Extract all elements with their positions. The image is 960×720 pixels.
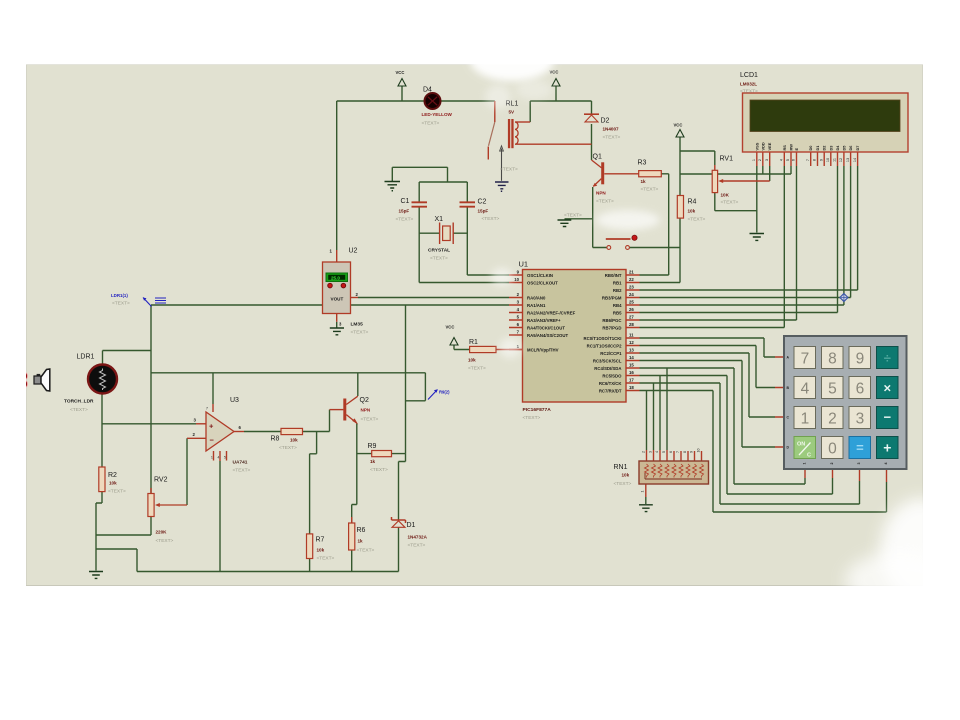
svg-text:1: 1 [211,456,213,460]
white smudge PIC left pins [491,268,513,286]
svg-text:28: 28 [629,322,634,327]
wire switch bottom stub [487,147,489,160]
svg-text:R4: R4 [688,199,697,206]
svg-text:RB3/PGM: RB3/PGM [602,296,622,301]
diode D2 [584,114,621,140]
svg-text:<TEXT>: <TEXT> [233,468,251,474]
svg-text:=: = [856,440,864,455]
white smudge bottom right corner [845,498,960,608]
wire LCD VSS to ground [756,166,758,233]
wire RN1 pin4 to row16 [659,376,661,451]
power symbol VCC2 [550,70,561,87]
wire U3 bottom stubs [214,451,227,461]
wire RV2 bottom [96,517,151,536]
svg-text:<TEXT>: <TEXT> [156,538,174,544]
wire R2 bottom to ground [96,492,102,571]
svg-text:5: 5 [786,159,790,161]
resistor R2 [99,467,126,495]
svg-text:C: C [807,453,811,459]
svg-text:MCLR/Vpp/THV: MCLR/Vpp/THV [527,348,559,353]
svg-text:10k: 10k [109,481,117,486]
wire LDR bottom to R2 and U3 pin3 [102,394,196,467]
svg-text:5: 5 [224,456,226,460]
wire RV1 top red stub [714,165,716,170]
svg-text:RC2/CCP1: RC2/CCP1 [600,351,622,356]
capacitor C2 [460,199,500,223]
wire U3 pin7 red stub [212,404,214,412]
svg-text:8: 8 [683,451,687,453]
svg-text:RC1/T1OSI/CCP2: RC1/T1OSI/CCP2 [587,344,622,349]
wire LDR top to RV2 top [103,305,152,494]
wire RN1 pin5 to row15 [666,368,668,450]
wire keypad col stubs red [805,468,887,482]
resistor R9 [368,443,392,473]
node diamond junction D5 [840,294,848,302]
wire VCC4 to R1 [454,345,470,350]
wire RV2 wiper to U3 pin2 [186,438,188,505]
sensor U2 LM35 [323,248,369,336]
svg-text:24: 24 [629,292,634,297]
wire ground rail bottom [96,549,399,572]
ground RN1 [639,505,653,512]
svg-text:10k: 10k [688,209,696,214]
power symbol VCC1 [396,70,407,86]
svg-text:<TEXT>: <TEXT> [70,407,88,413]
net label R9(2) [428,390,450,400]
svg-text:<TEXT>: <TEXT> [721,200,739,206]
wire RN1 pin2 to row18 [646,391,648,451]
relay RL1 [506,101,583,219]
svg-text:<TEXT>: <TEXT> [112,301,130,307]
svg-text:R1: R1 [469,339,478,346]
svg-text:4: 4 [884,463,888,465]
ground LCD VSS [750,234,765,241]
wire U3 output to R8 [244,431,281,433]
svg-text:C1: C1 [401,198,410,205]
svg-text:RA4/T0CKI/C1OUT: RA4/T0CKI/C1OUT [527,326,565,331]
svg-text:<TEXT>: <TEXT> [688,217,706,223]
svg-text:11: 11 [629,333,634,338]
svg-text:12: 12 [839,158,843,162]
wire LCD E to PIC pin27 [640,166,797,320]
svg-text:1: 1 [752,159,756,161]
wire R9 right to V1 and D1 [392,454,406,520]
svg-text:0: 0 [828,440,837,457]
microcontroller U1 PIC16F877A [519,260,627,422]
svg-text:15pF: 15pF [478,209,489,214]
svg-text:UA741: UA741 [233,460,248,466]
wire Q1 emitter to ground and push button [565,187,593,248]
svg-text:10k: 10k [317,548,325,553]
svg-text:2: 2 [828,410,837,427]
wire relay coil bottom red [515,143,591,145]
svg-text:LED-YELLOW: LED-YELLOW [422,112,453,117]
svg-text:<TEXT>: <TEXT> [468,366,486,372]
wire RN1 pin1 to ground [645,497,647,504]
svg-text:1k: 1k [641,179,647,184]
svg-text:2: 2 [642,451,646,453]
svg-text:RA3/AN3/VREF+: RA3/AN3/VREF+ [527,318,561,323]
ground bottom left [89,572,103,579]
wire VCC2 to relay rail [530,86,591,122]
pot RV1 [712,156,738,206]
svg-text:7: 7 [806,159,810,161]
svg-text:RB2: RB2 [613,288,622,293]
wire RV2 top red stub [150,488,152,494]
resistor R7 [307,534,335,562]
wire D1 bottom to rail [398,527,400,571]
power symbol VCC4 [446,325,459,346]
svg-text:23: 23 [629,285,634,290]
svg-text:220K: 220K [156,530,168,535]
wire VCC rail to D4 and U2 pin1 [337,86,495,250]
wire PIC left pin stubs [509,275,523,350]
svg-text:RC5/SDO: RC5/SDO [602,374,622,379]
svg-text:RC7/RX/DT: RC7/RX/DT [599,389,622,394]
svg-text:D2: D2 [601,118,610,125]
svg-text:11: 11 [833,158,837,162]
svg-text:E: E [794,148,799,151]
svg-text:D7: D7 [855,146,860,151]
wire Q2 emitter to R9 and R6 [352,424,372,524]
wire RN1 pin3 to row17 [653,383,655,450]
svg-text:12: 12 [629,340,634,345]
ground RV1 bottom rail [0,0,1,1]
svg-text:LDR1: LDR1 [77,354,95,361]
LDR1 [64,354,117,414]
white smudge near Q1 [596,210,660,230]
svg-text:<TEXT>: <TEXT> [351,330,369,336]
svg-text:CRYSTAL: CRYSTAL [428,248,450,254]
svg-text:−: − [884,410,892,425]
svg-text:13: 13 [846,158,850,162]
svg-text:RB6/PGC: RB6/PGC [602,318,621,323]
svg-text:R2: R2 [108,472,117,479]
U1 right pin names [584,273,623,394]
svg-text:C2: C2 [478,199,487,206]
wire sensor horizontal H1 [151,373,425,401]
svg-text:2: 2 [758,159,762,161]
svg-text:16: 16 [629,370,634,375]
transistor Q1 [592,154,615,205]
svg-text:U2: U2 [349,248,358,255]
svg-text:VCC: VCC [674,123,683,128]
svg-text:R8: R8 [271,436,280,443]
svg-text:3: 3 [857,463,861,465]
svg-text:13: 13 [629,348,634,353]
svg-text:RV2: RV2 [154,477,168,484]
svg-text:14: 14 [853,158,857,162]
svg-text:RV1: RV1 [720,156,734,163]
svg-text:<TEXT>: <TEXT> [422,121,440,127]
svg-text:D4: D4 [423,87,432,94]
wire push button to R4 vertical [593,247,680,249]
white smudge top center [470,39,554,109]
svg-text:10: 10 [826,158,830,162]
wire LCD RS to PIC pin28 [640,166,785,328]
svg-text:VCC: VCC [446,325,455,330]
wire OSC1 to PIC pin9 [467,274,509,276]
wire U3 pin7 to H1 [212,373,214,404]
wire U3 in- red stub [187,437,206,439]
svg-text:RB7/PGD: RB7/PGD [602,326,621,331]
svg-text:+: + [883,440,891,456]
wire RN1 top pin stubs red [647,450,702,461]
svg-text:D4: D4 [835,145,840,151]
svg-text:5V: 5V [509,110,516,115]
svg-text:<TEXT>: <TEXT> [614,481,632,487]
wire LCD D6 to PIC pin24 [640,166,851,298]
svg-text:RC3/SCK/SCL: RC3/SCK/SCL [593,359,622,364]
wire R1 to PIC pin1 red [496,349,523,351]
wire R7 bottom [309,559,311,572]
wire U2 pin3 to ground [336,322,338,328]
svg-text:VOUT: VOUT [331,297,344,302]
svg-text:1N4732A: 1N4732A [408,535,428,540]
svg-text:9: 9 [690,451,694,453]
svg-text:D5: D5 [841,145,846,151]
svg-text:5: 5 [828,380,837,397]
svg-text:LCD1: LCD1 [740,72,758,79]
svg-text:25: 25 [629,300,634,305]
svg-text:17: 17 [629,378,634,383]
svg-text:TORCH_LDR: TORCH_LDR [64,399,94,405]
ground near crystal [385,182,401,192]
wire PIC pin14 to keypad row D [640,361,776,448]
svg-text:RB4: RB4 [613,303,622,308]
svg-text:1N4007: 1N4007 [603,127,620,132]
svg-text:<TEXT>: <TEXT> [357,548,375,554]
svg-text:U3: U3 [230,397,239,404]
transistor Q2 [343,396,378,423]
wire PIC pin3 sensor net V1 [151,305,509,454]
svg-text:VCC: VCC [550,70,559,75]
svg-text:×: × [884,381,892,396]
svg-text:4: 4 [218,456,220,460]
wire PIC pin15 to keypad col1 [640,368,806,484]
wire PIC right pin stubs [626,275,640,391]
svg-text:R7: R7 [316,537,325,544]
svg-text:−: − [210,436,215,445]
svg-text:VEE: VEE [767,142,772,150]
svg-text:R3: R3 [638,160,647,167]
keypad KPD [784,336,907,469]
svg-text:RA0/AN0: RA0/AN0 [527,296,546,301]
svg-text:<TEXT>: <TEXT> [317,556,335,562]
svg-text:VCC: VCC [396,70,405,75]
svg-text:NPN: NPN [361,408,371,413]
U1 left pin names [527,273,576,353]
svg-text:OSC1/CLKIN: OSC1/CLKIN [527,273,553,278]
wire relay coil top red [515,121,530,123]
svg-text:10: 10 [697,449,701,453]
svg-text:X1: X1 [435,216,444,223]
svg-text:÷: ÷ [884,351,891,366]
svg-text:PIC16F877A: PIC16F877A [523,407,552,413]
wire R6 top red stub [351,517,353,523]
svg-text:2: 2 [830,463,834,465]
wire RN1 pin1 red stub [645,484,647,497]
schematic sheet [26,65,923,586]
svg-text:7: 7 [801,350,810,367]
ground U2 [330,328,344,335]
wire RV1 wiper red [722,180,770,182]
svg-text:R6: R6 [357,527,366,534]
svg-text:<TEXT>: <TEXT> [361,417,379,423]
svg-text:<TEXT>: <TEXT> [408,543,426,549]
svg-text:9: 9 [819,159,823,161]
wire R4 bottom to PIC pin22 [640,218,681,283]
svg-text:10: 10 [514,277,519,282]
svg-text:<TEXT>: <TEXT> [396,217,414,223]
svg-text:<TEXT>: <TEXT> [523,415,541,421]
resistor R8 [271,428,303,451]
svg-text:NPN: NPN [596,191,606,196]
svg-text:1: 1 [801,410,810,427]
svg-text:+: + [209,422,214,431]
push button [606,235,637,249]
svg-text:U1: U1 [519,260,529,269]
svg-text:14: 14 [629,355,634,360]
wire RV1 bottom to VSS ground [715,193,757,211]
wire Q2 collector to H1 [357,373,359,396]
svg-text:<TEXT>: <TEXT> [482,216,500,222]
U1 right pin numbers [629,270,634,391]
wire U3 V- to ground rail [219,461,221,572]
wire U2 pin1 red stub [336,250,338,262]
wire U2 pin2 red stub [351,297,359,299]
svg-text:9: 9 [856,350,865,367]
svg-text:26: 26 [629,307,634,312]
svg-text:<TEXT>: <TEXT> [603,135,621,141]
svg-text:25.0: 25.0 [331,276,340,281]
svg-text:Q2: Q2 [360,397,369,404]
wire LCD D4 to PIC pin26 [640,166,838,313]
svg-text:22: 22 [629,277,634,282]
svg-text:RB5: RB5 [613,311,622,316]
ground Q1 emitter [558,220,572,227]
resistor R3 [638,160,662,193]
svg-text:<TEXT>: <TEXT> [596,199,614,205]
svg-text:RN1: RN1 [614,464,628,471]
net label LDR1(1) [111,293,166,307]
svg-text:6: 6 [669,451,673,453]
wire PIC pin17 to keypad col3 [640,383,860,504]
svg-text:1: 1 [803,463,807,465]
svg-text:RA2/AN2/VREF-/CVREF: RA2/AN2/VREF-/CVREF [527,311,576,316]
svg-text:8: 8 [813,159,817,161]
svg-text:ON: ON [797,442,805,448]
wire crystal C1 C2 network [392,167,467,282]
svg-text:4: 4 [780,159,784,161]
svg-text:LDR1(1): LDR1(1) [111,293,128,298]
svg-text:3: 3 [765,159,769,161]
svg-text:R9: R9 [368,443,377,450]
svg-text:VDD: VDD [760,142,765,150]
wire R3 to PIC pin21 [640,174,669,275]
resistor R6 [349,523,375,554]
wire PIC pin11 to keypad row A [640,338,776,357]
resistor R1 [468,339,496,372]
svg-text:4: 4 [655,451,659,453]
svg-text:Q1: Q1 [593,154,602,161]
svg-text:RB0/INT: RB0/INT [605,273,622,278]
svg-text:1k: 1k [370,459,376,464]
svg-text:<TEXT>: <TEXT> [564,213,582,219]
svg-text:6: 6 [792,159,796,161]
svg-text:<TEXT>: <TEXT> [641,187,659,193]
wire D2 anode to Q1 collector [591,124,593,160]
svg-text:1k: 1k [358,539,364,544]
LED D4 [422,87,453,127]
wire R6 bottom [351,550,353,572]
svg-text:27: 27 [629,315,634,320]
U1 left pin numbers [514,270,519,350]
svg-text:RC4/SDI/SDA: RC4/SDI/SDA [594,366,621,371]
svg-text:21: 21 [629,270,634,275]
svg-text:1: 1 [641,491,645,493]
svg-text:10K: 10K [721,193,730,198]
relay contact switch [489,122,519,181]
svg-text:RC6/TX/CK: RC6/TX/CK [599,381,623,386]
svg-text:RB1: RB1 [613,281,622,286]
svg-text:R9(2): R9(2) [439,390,450,395]
resistor network RN1 [614,461,709,487]
power symbol VCC3 [674,123,685,138]
wire Q2 base red [330,409,344,411]
svg-text:<TEXT>: <TEXT> [370,467,388,473]
svg-text:6: 6 [856,380,865,397]
svg-text:LM032L: LM032L [740,82,757,87]
svg-text:3: 3 [856,410,865,427]
svg-text:VSS: VSS [754,142,759,150]
svg-text:D0: D0 [808,146,813,151]
svg-text:D1: D1 [815,145,820,151]
svg-text:<TEXT>: <TEXT> [108,489,126,495]
svg-text:RA5/AN4/SS/C2OUT: RA5/AN4/SS/C2OUT [527,333,568,338]
svg-text:7: 7 [676,451,680,453]
svg-text:10k: 10k [622,473,630,478]
LCD pin numbers [752,158,857,162]
svg-text:10k: 10k [468,358,476,363]
wire PIC pin12 to keypad row B [640,346,776,388]
wire Q1 base red [604,173,638,175]
wire PIC pin13 to keypad row C [640,353,776,417]
crystal X1 [428,216,453,262]
wire LCD VDD RW to VCC vertical [680,166,791,174]
svg-text:8: 8 [828,350,837,367]
wire PIC pin18 to keypad col4 [640,391,887,513]
svg-text:LM35: LM35 [351,322,364,328]
wire R8 to Q2 base and R7 [303,410,330,534]
svg-text:D2: D2 [822,145,827,151]
wire LCD D7 to PIC pin23 [640,166,858,290]
svg-text:RC0/T1OSO/T1CKI: RC0/T1OSO/T1CKI [584,336,622,341]
ground relay pole (blue) [495,182,509,192]
wire PIC pin16 to keypad col2 [640,376,833,495]
white smudge near R1 [499,338,521,358]
svg-text:15: 15 [629,363,634,368]
wire U3 out red stub [234,431,244,433]
wire U3 in+ red stub [196,423,206,425]
wire VCC3 to R4 top and RV1 [680,137,715,196]
svg-text:3: 3 [649,451,653,453]
resistor R4 [677,196,705,223]
wire LCD D5 to PIC pin25 [640,166,844,305]
svg-text:D6: D6 [848,145,853,151]
svg-text:15pF: 15pF [399,209,410,214]
LCD pin name labels [754,142,860,150]
